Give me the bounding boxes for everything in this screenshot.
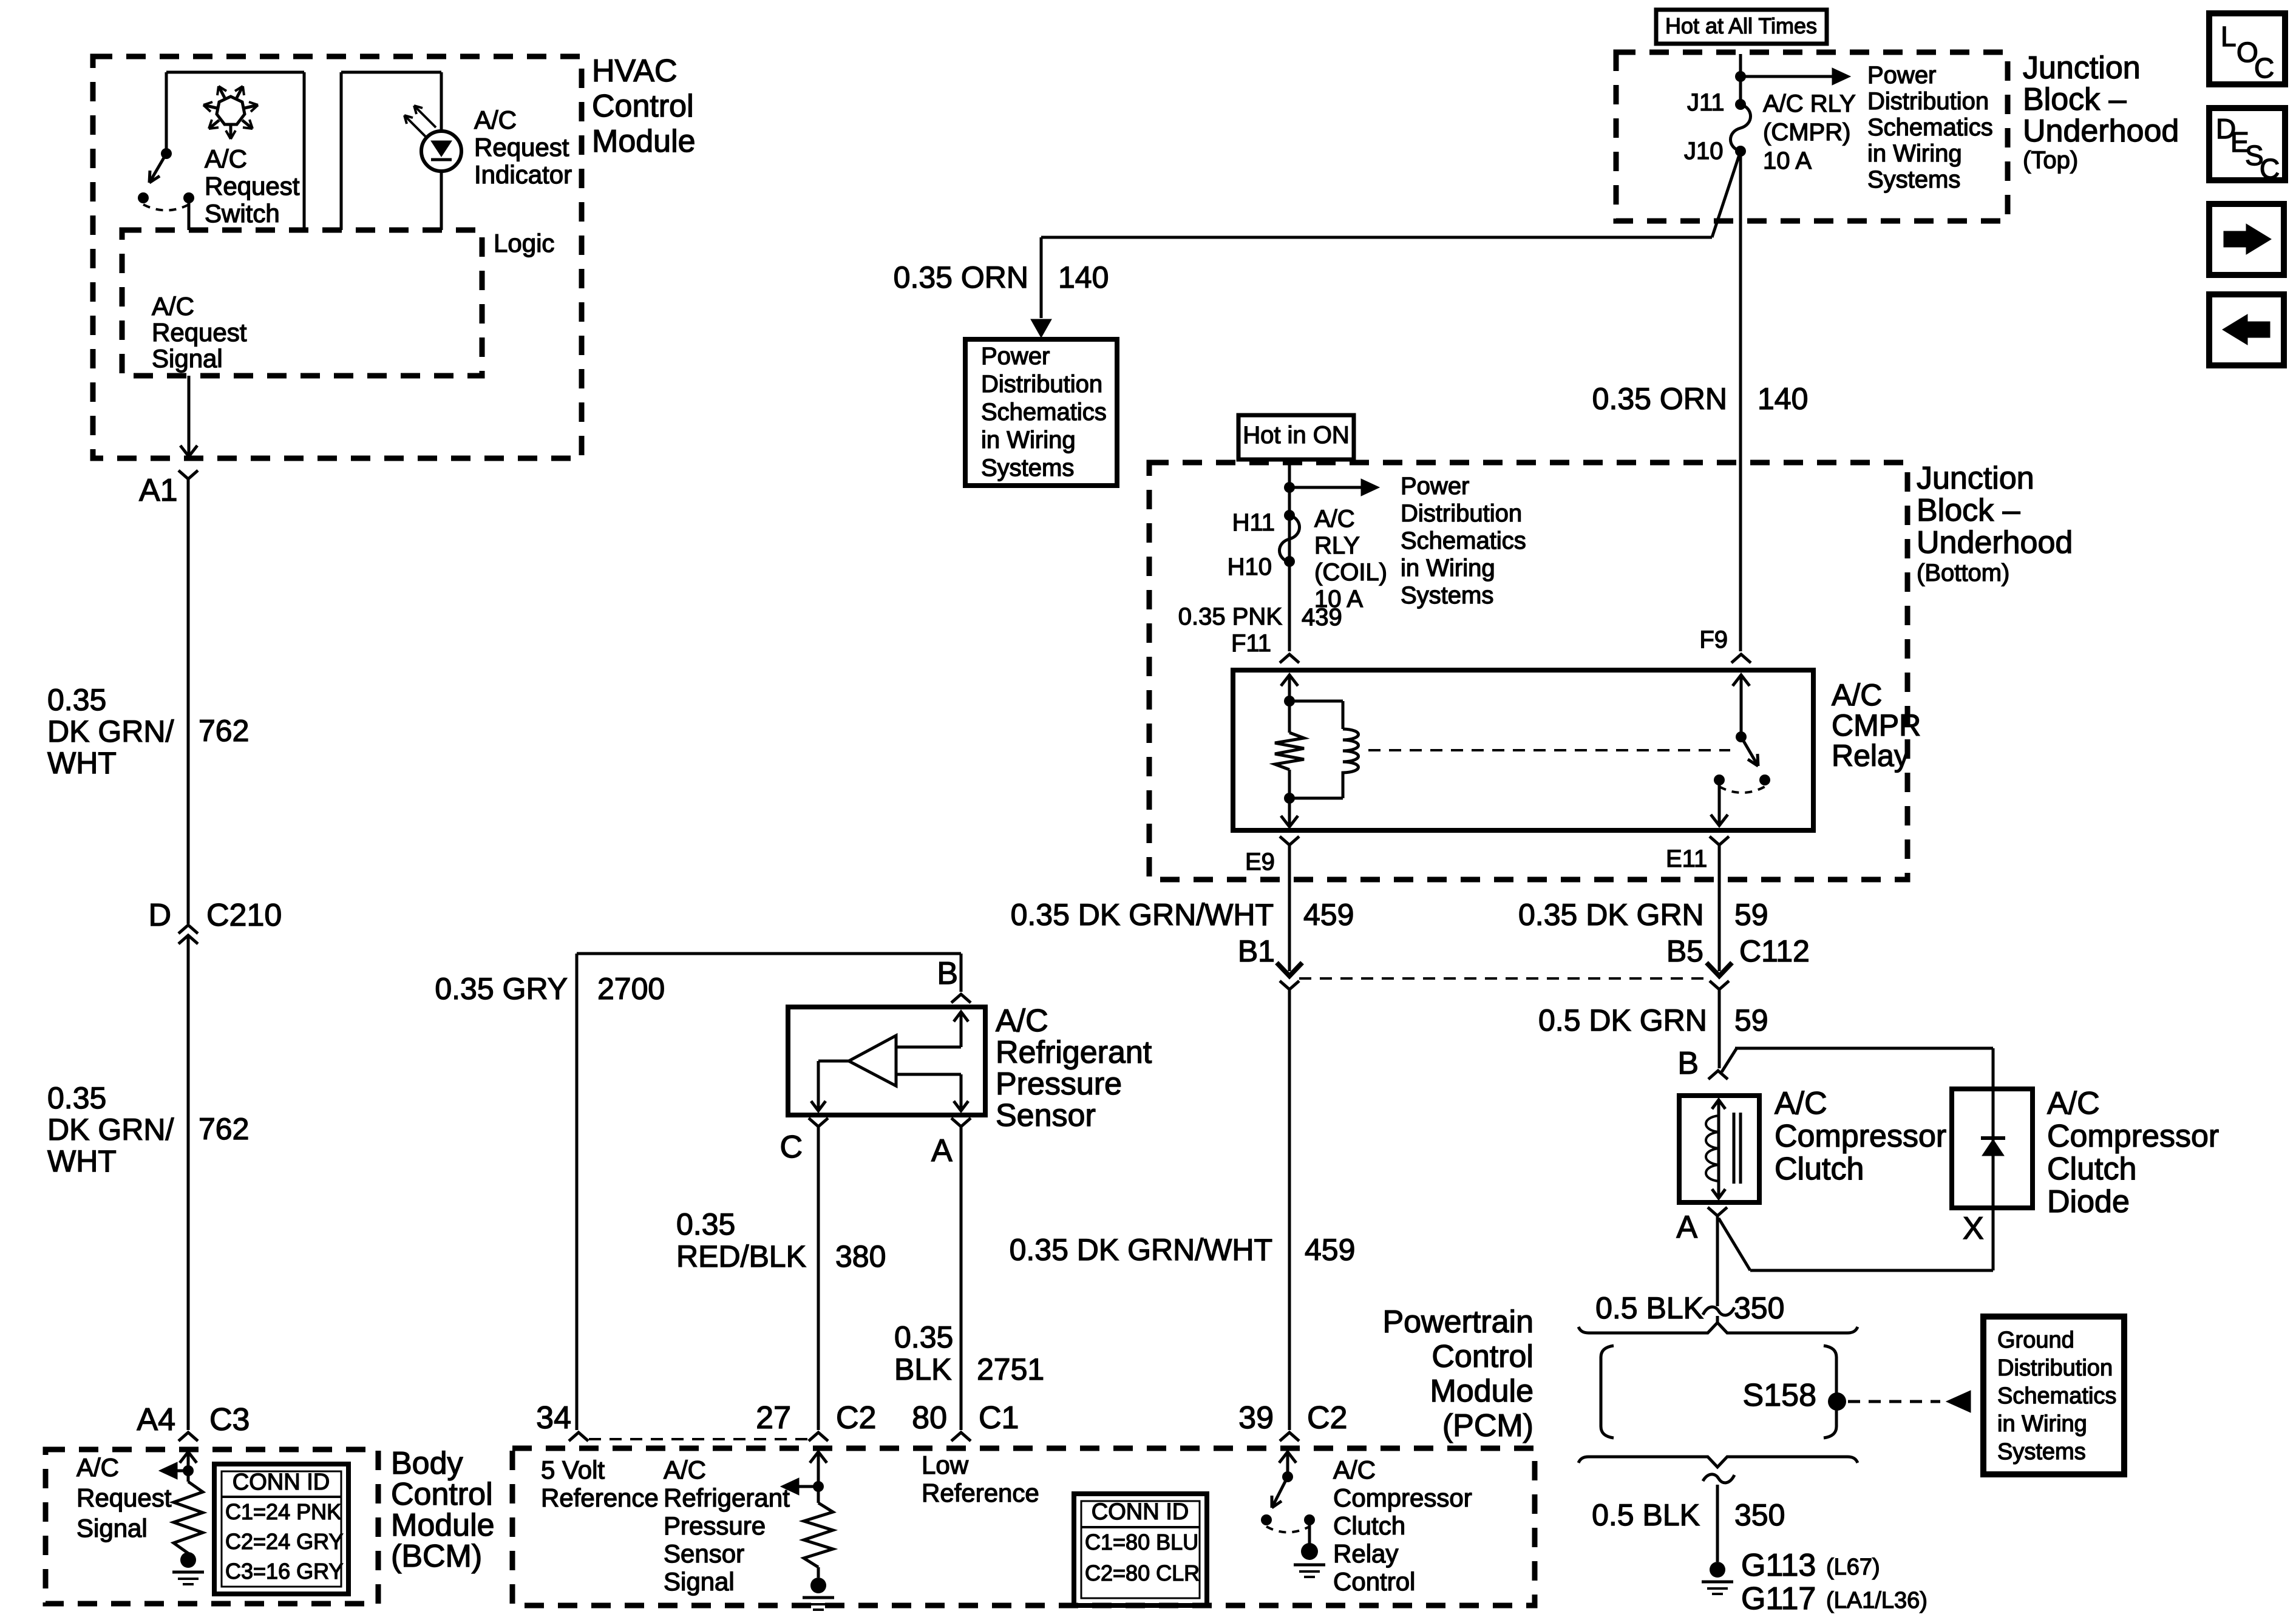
svg-text:Systems: Systems (1867, 166, 1960, 193)
svg-text:C2=24 GRY: C2=24 GRY (225, 1529, 343, 1554)
svg-text:34: 34 (536, 1400, 571, 1436)
svg-text:C2: C2 (1307, 1400, 1347, 1436)
svg-text:X: X (1963, 1211, 1984, 1246)
svg-text:0.35 DK GRN/WHT: 0.35 DK GRN/WHT (1010, 1233, 1272, 1267)
svg-text:C1=24 PNK: C1=24 PNK (225, 1499, 341, 1524)
svg-text:C112: C112 (1739, 934, 1810, 968)
svg-text:(BCM): (BCM) (391, 1539, 482, 1574)
svg-text:380: 380 (835, 1239, 886, 1273)
svg-text:C: C (2260, 153, 2280, 185)
svg-text:A/C: A/C (1333, 1456, 1376, 1484)
svg-text:DK GRN/: DK GRN/ (47, 1113, 174, 1147)
svg-text:Request: Request (205, 172, 300, 200)
svg-text:Schematics: Schematics (1997, 1383, 2116, 1409)
svg-text:A1: A1 (139, 473, 178, 508)
svg-text:A/C: A/C (1832, 678, 1882, 712)
svg-text:Junction: Junction (1917, 461, 2034, 496)
svg-text:C2: C2 (836, 1400, 876, 1436)
svg-text:Powertrain: Powertrain (1382, 1304, 1533, 1340)
svg-text:Control: Control (1333, 1567, 1415, 1596)
svg-text:0.35 PNK: 0.35 PNK (1178, 603, 1283, 630)
svg-text:Module: Module (1430, 1374, 1533, 1409)
svg-text:J11: J11 (1687, 89, 1725, 116)
svg-text:Distribution: Distribution (1867, 88, 1989, 115)
svg-text:(LA1/L36): (LA1/L36) (1826, 1588, 1927, 1613)
svg-text:A/C: A/C (664, 1456, 706, 1484)
svg-text:E9: E9 (1245, 849, 1275, 875)
svg-text:0.35: 0.35 (676, 1207, 735, 1241)
svg-text:0.35: 0.35 (47, 1081, 106, 1115)
svg-text:F11: F11 (1231, 630, 1271, 657)
svg-text:WHT: WHT (47, 746, 117, 780)
svg-text:Distribution: Distribution (1401, 500, 1522, 527)
svg-text:0.35 GRY: 0.35 GRY (435, 972, 568, 1006)
svg-text:2700: 2700 (597, 972, 665, 1006)
svg-text:59: 59 (1734, 1003, 1768, 1037)
svg-text:Hot at All Times: Hot at All Times (1665, 13, 1817, 38)
svg-text:439: 439 (1302, 604, 1342, 631)
svg-text:Systems: Systems (1997, 1439, 2086, 1465)
svg-text:A: A (1676, 1210, 1697, 1245)
svg-text:A/C: A/C (996, 1003, 1048, 1039)
svg-text:Switch: Switch (205, 199, 280, 228)
svg-text:Refrigerant: Refrigerant (996, 1035, 1152, 1070)
svg-text:Distribution: Distribution (1997, 1355, 2113, 1381)
svg-text:E11: E11 (1666, 846, 1707, 872)
svg-text:0.35: 0.35 (47, 683, 106, 717)
svg-text:RLY: RLY (1314, 532, 1360, 559)
svg-text:0.35 DK GRN: 0.35 DK GRN (1518, 898, 1704, 932)
svg-text:C: C (779, 1130, 803, 1165)
svg-text:C210: C210 (206, 898, 282, 933)
svg-text:Power: Power (981, 343, 1050, 370)
svg-text:A/C: A/C (474, 106, 517, 134)
svg-text:Sensor: Sensor (996, 1098, 1096, 1133)
svg-text:WHT: WHT (47, 1144, 117, 1178)
svg-text:DK GRN/: DK GRN/ (47, 714, 174, 748)
svg-text:27: 27 (756, 1400, 791, 1436)
svg-text:Request: Request (474, 133, 569, 161)
svg-text:B1: B1 (1238, 934, 1275, 968)
svg-text:(L67): (L67) (1826, 1554, 1880, 1580)
svg-text:Pressure: Pressure (664, 1511, 766, 1540)
svg-text:H10: H10 (1228, 554, 1272, 580)
svg-text:Block –: Block – (1917, 493, 2020, 528)
svg-text:(Top): (Top) (2023, 147, 2078, 174)
svg-text:Refrigerant: Refrigerant (664, 1483, 790, 1512)
svg-text:Systems: Systems (1401, 582, 1493, 609)
svg-text:C1=80 BLU: C1=80 BLU (1085, 1530, 1198, 1554)
svg-text:Schematics: Schematics (1867, 114, 1993, 141)
svg-text:A/C: A/C (2047, 1086, 2100, 1121)
svg-text:0.5 DK GRN: 0.5 DK GRN (1538, 1003, 1707, 1037)
svg-text:Schematics: Schematics (981, 399, 1107, 425)
svg-text:A/C RLY: A/C RLY (1763, 90, 1856, 117)
svg-text:A4: A4 (137, 1402, 175, 1437)
svg-text:C3=16 GRY: C3=16 GRY (225, 1559, 343, 1584)
svg-text:Clutch: Clutch (1775, 1151, 1864, 1187)
svg-text:J10: J10 (1684, 138, 1724, 164)
svg-text:Hot in ON: Hot in ON (1243, 422, 1350, 449)
svg-text:C: C (2254, 52, 2274, 84)
svg-text:Relay: Relay (1333, 1539, 1398, 1568)
svg-text:Request: Request (152, 318, 247, 347)
svg-text:Ground: Ground (1997, 1327, 2074, 1353)
svg-text:BLK: BLK (894, 1352, 952, 1386)
svg-text:Compressor: Compressor (1333, 1483, 1472, 1512)
svg-text:350: 350 (1734, 1498, 1785, 1532)
svg-text:Reference: Reference (541, 1483, 659, 1512)
svg-text:0.5 BLK: 0.5 BLK (1595, 1291, 1703, 1325)
svg-text:D: D (148, 898, 171, 933)
svg-text:HVAC: HVAC (592, 53, 678, 89)
svg-text:140: 140 (1758, 382, 1808, 416)
svg-text:Control: Control (1432, 1339, 1533, 1374)
svg-text:in Wiring: in Wiring (981, 427, 1076, 453)
svg-text:A/C: A/C (152, 292, 194, 320)
svg-text:Signal: Signal (664, 1567, 735, 1596)
svg-text:B: B (1677, 1046, 1699, 1081)
svg-text:Signal: Signal (152, 344, 223, 373)
svg-text:H11: H11 (1232, 509, 1275, 536)
svg-text:L: L (2221, 21, 2237, 52)
svg-text:C1: C1 (979, 1400, 1019, 1436)
svg-text:CONN ID: CONN ID (1092, 1499, 1189, 1525)
svg-text:0.35 DK GRN/WHT: 0.35 DK GRN/WHT (1011, 898, 1274, 932)
svg-text:140: 140 (1058, 260, 1109, 294)
svg-text:39: 39 (1238, 1400, 1274, 1436)
svg-text:(Bottom): (Bottom) (1917, 560, 2009, 586)
svg-text:762: 762 (199, 1112, 249, 1146)
svg-text:A: A (931, 1133, 953, 1168)
svg-text:A/C: A/C (1775, 1086, 1827, 1121)
svg-text:C3: C3 (209, 1402, 250, 1437)
svg-text:Indicator: Indicator (474, 160, 572, 189)
svg-text:G117: G117 (1741, 1581, 1816, 1616)
svg-text:(CMPR): (CMPR) (1763, 119, 1850, 146)
svg-text:Clutch: Clutch (2047, 1151, 2136, 1187)
svg-text:Junction: Junction (2023, 50, 2141, 86)
svg-text:A/C: A/C (205, 144, 247, 173)
svg-text:0.35: 0.35 (894, 1320, 953, 1354)
svg-text:CONN ID: CONN ID (233, 1470, 330, 1495)
svg-text:Underhood: Underhood (1917, 525, 2073, 560)
svg-text:Sensor: Sensor (664, 1539, 744, 1568)
svg-text:Schematics: Schematics (1401, 527, 1526, 554)
svg-text:G113: G113 (1741, 1548, 1816, 1583)
svg-text:762: 762 (199, 714, 249, 748)
svg-text:in Wiring: in Wiring (1401, 555, 1495, 581)
svg-text:Power: Power (1867, 62, 1936, 89)
svg-text:in Wiring: in Wiring (1997, 1411, 2087, 1437)
svg-text:Control: Control (391, 1477, 493, 1512)
svg-text:Request: Request (76, 1483, 172, 1512)
svg-text:Signal: Signal (76, 1514, 148, 1542)
svg-text:5 Volt: 5 Volt (541, 1456, 605, 1484)
svg-text:350: 350 (1734, 1291, 1784, 1325)
svg-text:Distribution: Distribution (981, 371, 1102, 398)
svg-text:C2=80 CLR: C2=80 CLR (1085, 1561, 1200, 1585)
svg-text:Reference: Reference (922, 1479, 1039, 1507)
svg-text:0.35 ORN: 0.35 ORN (894, 260, 1028, 294)
svg-text:(PCM): (PCM) (1442, 1408, 1533, 1443)
svg-text:B: B (937, 956, 958, 991)
svg-text:(COIL): (COIL) (1314, 559, 1387, 586)
svg-text:Diode: Diode (2047, 1184, 2130, 1219)
svg-text:Logic: Logic (494, 229, 554, 257)
svg-text:A/C: A/C (76, 1453, 119, 1482)
svg-text:Systems: Systems (981, 455, 1074, 481)
svg-text:Pressure: Pressure (996, 1066, 1122, 1102)
svg-text:Underhood: Underhood (2023, 114, 2179, 149)
svg-text:80: 80 (912, 1400, 947, 1436)
svg-text:CMPR: CMPR (1832, 708, 1921, 742)
svg-text:Low: Low (922, 1451, 969, 1479)
svg-text:in Wiring: in Wiring (1867, 140, 1962, 167)
svg-text:Body: Body (391, 1446, 463, 1481)
svg-text:Compressor: Compressor (1775, 1119, 1946, 1154)
svg-text:A/C: A/C (1314, 506, 1355, 532)
svg-text:B5: B5 (1666, 934, 1703, 968)
svg-text:10 A: 10 A (1763, 147, 1812, 174)
svg-text:Compressor: Compressor (2047, 1119, 2219, 1154)
svg-text:S158: S158 (1743, 1378, 1816, 1413)
svg-text:0.35 ORN: 0.35 ORN (1592, 382, 1727, 416)
svg-text:Relay: Relay (1832, 739, 1909, 773)
svg-text:Power: Power (1401, 473, 1469, 500)
svg-text:F9: F9 (1699, 626, 1728, 653)
svg-text:Block –: Block – (2023, 82, 2127, 117)
svg-text:59: 59 (1734, 898, 1768, 932)
svg-text:459: 459 (1303, 898, 1354, 932)
svg-text:Module: Module (391, 1508, 495, 1543)
svg-text:Module: Module (592, 124, 696, 159)
svg-text:RED/BLK: RED/BLK (676, 1239, 806, 1273)
svg-text:459: 459 (1305, 1233, 1355, 1267)
svg-text:2751: 2751 (977, 1352, 1044, 1386)
svg-text:Control: Control (592, 89, 694, 124)
svg-text:0.5 BLK: 0.5 BLK (1592, 1498, 1700, 1532)
svg-text:Clutch: Clutch (1333, 1511, 1405, 1540)
